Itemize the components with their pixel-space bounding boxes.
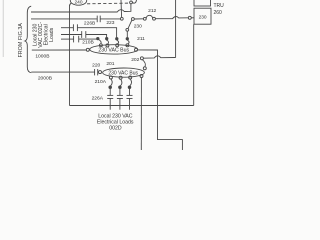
hook tapB [120,79,122,86]
svg-text:240: 240 [74,0,82,6]
capacitor 226B [96,16,98,23]
wire 2000B [31,71,94,73]
bus oval 230 VAC Bus upper [90,45,138,54]
wire W1 from oval1 right to bottom right [138,50,183,150]
hook tapC [130,79,132,86]
wire L3 elbow down [77,28,116,38]
wire L1 with crossover hump [31,4,131,12]
oval 240 [70,0,86,5]
connector circle oval2 left [99,71,102,74]
wire 1000B [32,49,87,51]
svg-text:Loads: Loads [49,27,55,42]
wire [100,18,120,20]
hook tap1 [99,40,102,44]
wire down from oval2 SE to bottom edge [140,78,142,151]
wire W2 horizontal with crossover hump [143,56,175,58]
wire V4 from top edge down [120,0,123,17]
connector circle oval1 left [86,48,89,51]
svg-text:212: 212 [148,8,156,14]
tap circles oval2 bottom [109,76,112,79]
svg-text:211: 211 [137,36,145,42]
bus oval 230 VAC Bus lower [103,68,145,77]
contactor 202 [140,57,143,60]
connector circle oval2 SE [140,75,143,78]
wires down to caps [109,87,111,95]
wire L5 [61,38,74,40]
wire L2 bus from brace [31,18,97,20]
svg-text:002D: 002D [109,126,122,132]
wire L5 [79,38,98,40]
svg-text:230: 230 [134,23,142,29]
svg-text:201: 201 [106,61,114,67]
wire from 240 oval to box edge [70,3,72,6]
svg-text:223: 223 [106,20,114,26]
svg-text:220: 220 [92,62,100,68]
svg-text:2000B: 2000B [38,76,52,82]
contactor 211 [126,31,128,37]
svg-text:1000B: 1000B [35,54,49,60]
hook tapA [111,79,113,86]
wire L4 elbow down [86,35,107,41]
capacitor L3 [72,24,74,31]
wire bus with crossover hump to TRU [155,16,188,18]
svg-text:230: 230 [199,14,207,20]
node dot tap3 [116,38,118,40]
hook tap2 [106,37,108,39]
connector circle node 240-line [130,1,133,4]
brace FROM FIG.3A [25,6,31,73]
wire arc from node to top edge [132,0,136,3]
svg-text:226A: 226A [92,95,104,101]
connector circle TRU input [188,16,191,19]
TRU boxes [194,0,211,6]
wire [191,17,194,19]
svg-text:210A: 210A [95,79,107,85]
contactor 212 [143,17,146,20]
big unit box right edge wire to TRU [193,24,195,105]
capacitor L5 [73,36,75,43]
svg-text:TRU: TRU [214,3,225,9]
wire L4 [61,34,82,36]
svg-text:230 VAC Bus: 230 VAC Bus [108,71,138,77]
big unit box bottom edge [70,105,194,107]
faint page border [2,0,4,57]
svg-text:202: 202 [131,57,139,63]
wires below caps [109,99,111,110]
wire W2 vertical from top [175,0,177,58]
hook tap3 [117,40,119,44]
capacitor 226A set [107,94,113,96]
connector circle oval1 right [135,48,138,51]
svg-text:230 VAC Bus: 230 VAC Bus [98,47,129,53]
svg-text:210B: 210B [82,39,93,45]
wire bus to 212 [134,18,143,20]
svg-text:260: 260 [214,10,223,16]
switch 230 [132,18,135,21]
capacitor L4 [81,31,83,38]
connector circle node 223 [120,17,123,20]
dashed wire from 240 [87,2,129,5]
node dot tap1 [97,37,99,39]
wire L3 [61,27,73,29]
svg-text:FROM FIG.3A: FROM FIG.3A [18,23,24,58]
svg-text:226B: 226B [84,20,95,26]
big unit box left edge [69,6,71,106]
svg-text:Electrical Loads: Electrical Loads [97,119,134,125]
capacitor 220 [94,69,96,75]
node dots bottom taps [109,86,112,89]
